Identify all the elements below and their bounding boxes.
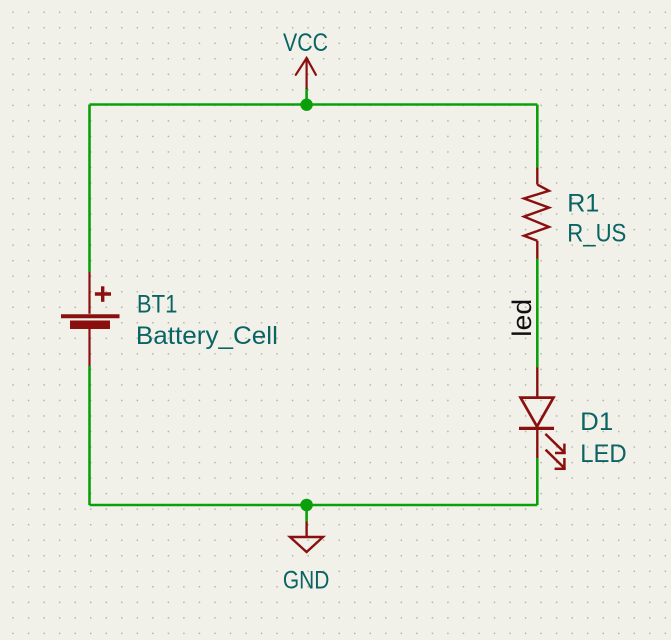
- svg-text:VCC: VCC: [283, 29, 328, 57]
- svg-text:BT1: BT1: [137, 291, 178, 319]
- svg-text:Battery_Cell: Battery_Cell: [136, 322, 278, 350]
- svg-text:D1: D1: [580, 408, 613, 436]
- svg-text:GND: GND: [283, 567, 330, 595]
- svg-text:led: led: [507, 299, 537, 337]
- svg-text:R1: R1: [567, 190, 599, 218]
- svg-text:R_US: R_US: [567, 219, 626, 247]
- svg-text:LED: LED: [580, 440, 627, 468]
